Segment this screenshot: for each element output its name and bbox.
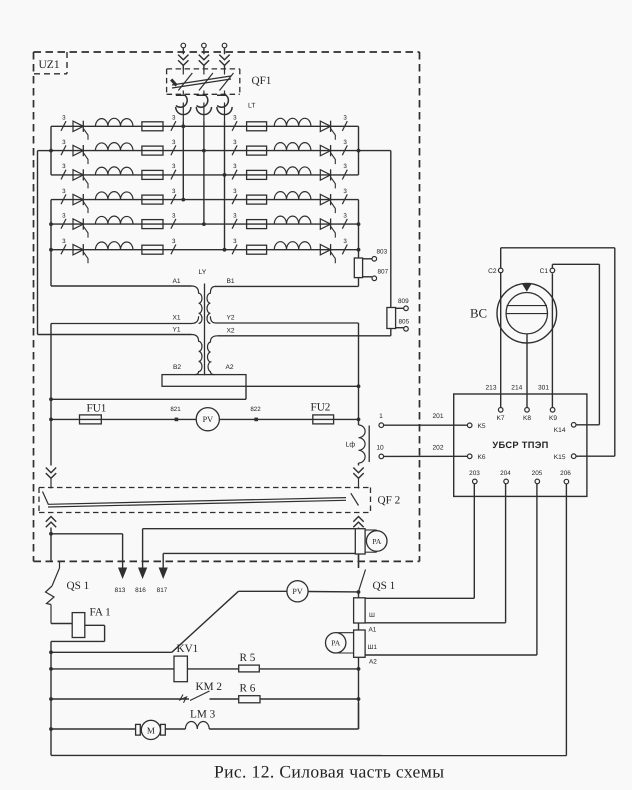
anode choke row6 right: [274, 242, 311, 250]
wire right bus Y2 down: [358, 323, 360, 425]
transformer LY core: [204, 284, 206, 376]
svg-text:3: 3: [233, 115, 237, 122]
svg-text:FU1: FU1: [87, 403, 107, 415]
label BC: [470, 307, 487, 321]
svg-text:3: 3: [62, 238, 66, 245]
svg-text:K9: K9: [549, 415, 557, 422]
pin K15: [554, 454, 576, 461]
svg-text:X1: X1: [172, 314, 180, 321]
svg-text:3: 3: [343, 238, 347, 245]
3-wire slash row6 b: [171, 238, 176, 254]
node phase A / row1: [181, 124, 185, 128]
pin label Y2: [226, 314, 234, 321]
thyristor VS row6 left: [73, 244, 88, 263]
filter choke Lf: [359, 425, 370, 463]
3-wire slash row1 b: [171, 115, 176, 131]
svg-text:3: 3: [62, 188, 66, 195]
transformer winding Y1-B2: [192, 335, 203, 375]
wire 816: [138, 529, 355, 579]
wire row4: [51, 199, 359, 201]
tap label Sh: [369, 612, 375, 619]
anode choke row2 right: [274, 143, 311, 151]
terminal 10: [376, 445, 384, 459]
node bar-return left bus: [49, 397, 53, 401]
3-wire slash row3 c: [232, 163, 237, 179]
3-wire slash row2 c: [232, 139, 237, 155]
fuse row1 right: [247, 122, 267, 131]
svg-text:PV: PV: [292, 587, 302, 596]
label QS1 right: [373, 580, 396, 592]
svg-text:3: 3: [172, 188, 176, 195]
resistor R6: [239, 696, 260, 703]
wire phase column A: [182, 122, 184, 200]
3-wire slash row5 a: [61, 212, 66, 228]
wire phase column B: [203, 122, 205, 225]
contact KM2: [180, 691, 210, 703]
node left bus row5: [49, 222, 53, 226]
3-wire slash row3 d: [342, 163, 347, 179]
svg-text:LM 3: LM 3: [190, 709, 216, 721]
label R5: [240, 652, 256, 664]
svg-text:203: 203: [469, 470, 480, 477]
fuse row4 right: [247, 195, 267, 204]
label FU2: [311, 402, 331, 414]
transformer winding X2-A2: [207, 336, 217, 375]
circuit breaker QF1 dashed box: [167, 69, 240, 94]
wire right lower bus: [358, 592, 360, 729]
thyristor VS row5 left: [73, 219, 88, 238]
wire phase column C: [224, 122, 226, 250]
svg-text:206: 206: [560, 470, 571, 477]
incoming line arrow phase A: [178, 55, 188, 70]
svg-text:821: 821: [170, 406, 181, 413]
wire C2 to K15: [501, 248, 615, 456]
wire left bus tee row2: [38, 150, 52, 152]
pin label B1: [226, 278, 234, 285]
node phase C / row3: [223, 173, 227, 177]
label 813: [115, 587, 126, 594]
svg-text:3: 3: [233, 139, 237, 146]
transformer winding B1-Y2: [207, 286, 359, 323]
disconnector QS1 right: [359, 570, 366, 592]
svg-text:3: 3: [343, 188, 347, 195]
fuse row1 left: [142, 122, 163, 131]
anode choke row3 left: [95, 167, 133, 175]
svg-text:3: 3: [62, 212, 66, 219]
anode choke row1 right: [274, 118, 311, 126]
label QS1 left: [67, 580, 90, 592]
transformer winding A1-X1: [51, 286, 202, 324]
3-wire slash row2 d: [342, 139, 347, 155]
svg-text:3: 3: [343, 212, 347, 219]
fuse FU2: [313, 415, 334, 424]
anode choke row5 right: [274, 216, 311, 224]
label LT: [248, 103, 255, 110]
wire R803 bottom to B1: [215, 278, 359, 287]
svg-text:205: 205: [532, 470, 543, 477]
thyristor VS row3 right: [320, 169, 335, 188]
node rowC right: [357, 697, 361, 701]
wire choke to QF2: [358, 463, 360, 466]
svg-text:202: 202: [432, 445, 443, 452]
pin K7: [496, 408, 504, 423]
fuse FA1: [72, 613, 85, 638]
fuse row2 left: [142, 146, 163, 155]
wire C1 to K14: [552, 264, 599, 425]
wire right bus through shunt: [358, 529, 360, 568]
wire left lower bus: [50, 652, 52, 755]
svg-text:PA: PA: [331, 639, 341, 648]
svg-text:3: 3: [343, 163, 347, 170]
phase input terminal C: [222, 43, 227, 54]
current transformers LT: [176, 95, 232, 121]
label KM2: [196, 681, 222, 693]
wire 213: [500, 273, 502, 408]
3-wire slash row5 d: [342, 212, 347, 228]
wire rowD left: [51, 728, 136, 730]
caption: [214, 762, 444, 782]
wire left bus rows4-6 down to A1: [51, 200, 192, 286]
svg-text:K15: K15: [554, 454, 566, 461]
pin 204: [500, 470, 511, 484]
resistor R803-807: [354, 257, 376, 281]
3-wire slash row5 b: [171, 212, 176, 228]
svg-text:213: 213: [485, 384, 496, 391]
fuse row4 left: [142, 195, 163, 204]
wire 214: [526, 334, 528, 407]
svg-text:PA: PA: [372, 537, 382, 546]
arrow below QF2 left: [46, 517, 56, 534]
node QS1r: [357, 590, 361, 594]
fuse row6 left: [142, 245, 163, 254]
anode choke row1 left: [95, 118, 133, 126]
svg-text:QF 2: QF 2: [378, 495, 401, 507]
3-wire slash row2 b: [171, 139, 176, 155]
svg-text:1: 1: [379, 413, 383, 420]
arrow left bus to QF2: [46, 468, 56, 479]
terminal label 807: [378, 269, 389, 276]
shunt RS2 lower: [354, 630, 366, 657]
wire outer left bus down to Y1: [38, 151, 192, 335]
svg-text:QS 1: QS 1: [67, 580, 90, 592]
wire 203: [365, 484, 474, 598]
voltmeter PV: [196, 408, 219, 431]
svg-text:3: 3: [62, 163, 66, 170]
smoothing choke LM3: [165, 722, 209, 729]
node left bus FU1 row: [49, 418, 53, 422]
label 202: [432, 445, 443, 452]
QF2 left pole: [43, 479, 52, 505]
label FU1: [87, 403, 107, 415]
svg-text:Y1: Y1: [172, 327, 180, 334]
label QF1: [252, 75, 272, 87]
svg-text:K6: K6: [478, 454, 486, 461]
wire rowD right: [209, 703, 358, 729]
anode choke row3 right: [274, 167, 311, 175]
svg-text:3: 3: [343, 139, 347, 146]
QF1 linkage bar: [171, 76, 231, 88]
svg-text:KV1: KV1: [177, 643, 199, 655]
wire FU1 row: [51, 418, 359, 420]
anode choke row4 right: [274, 192, 311, 200]
wire FA1 return: [51, 625, 105, 652]
svg-text:K5: K5: [478, 423, 486, 430]
relay coil KV1: [174, 656, 187, 682]
node right bus row2: [357, 149, 361, 153]
node rowD: [49, 727, 53, 731]
svg-text:822: 822: [250, 406, 261, 413]
svg-text:K7: K7: [496, 415, 504, 422]
svg-text:KM 2: KM 2: [196, 681, 222, 693]
wire 204: [365, 484, 506, 623]
pin 206: [560, 470, 571, 484]
svg-text:C2: C2: [488, 268, 497, 275]
3-wire slash row4 a: [61, 188, 66, 204]
svg-text:FU2: FU2: [311, 402, 331, 414]
pin K9: [549, 408, 557, 423]
svg-text:R 6: R 6: [240, 683, 256, 695]
wire row6: [51, 249, 359, 251]
QF1 pole contacts: [178, 69, 233, 94]
svg-text:R 5: R 5: [240, 652, 256, 664]
label KV1: [177, 643, 199, 655]
svg-text:807: 807: [378, 269, 389, 276]
thyristor VS row3 left: [73, 169, 88, 188]
node left bus row6: [49, 248, 53, 252]
label 301: [538, 384, 549, 391]
wire 301: [551, 274, 553, 408]
thyristor VS row5 right: [320, 219, 335, 238]
wire right bus rows1-3: [358, 126, 360, 175]
pin label X2: [226, 328, 234, 335]
disconnector QS1 left: [46, 562, 60, 624]
3-wire slash row2 a: [61, 139, 66, 155]
label QF2: [378, 495, 401, 507]
pin label Y1: [172, 327, 180, 334]
wire left bus rows1-3: [50, 126, 52, 175]
QF2 linkage bar: [48, 498, 346, 507]
wire rowC left: [51, 698, 189, 700]
svg-text:X2: X2: [226, 328, 234, 335]
wire 817: [159, 553, 356, 579]
svg-text:816: 816: [135, 587, 146, 594]
svg-text:3: 3: [62, 115, 66, 122]
3-wire slash row6 a: [61, 238, 66, 254]
label UZ1 with dashed frame: [34, 52, 67, 74]
svg-text:K8: K8: [523, 415, 531, 422]
label 816: [135, 587, 146, 594]
node left bus row2: [49, 149, 53, 153]
resistor R809-805: [387, 306, 408, 331]
breaker QF2 dashed box: [39, 488, 371, 513]
node rowA: [49, 650, 53, 654]
pin K8: [523, 408, 531, 423]
3-wire slash row1 d: [342, 115, 347, 131]
terminal 822: [250, 406, 261, 421]
label LM3: [190, 709, 216, 721]
wire 813: [51, 534, 127, 579]
terminal label 805: [399, 319, 410, 326]
wire R805 bottom to X2: [218, 329, 391, 336]
svg-text:3: 3: [172, 163, 176, 170]
pin label A2: [225, 364, 233, 371]
pin 203: [469, 470, 480, 484]
wire rowB: [51, 668, 359, 670]
arrow right bus to QF2: [353, 468, 363, 479]
wire row1: [51, 125, 359, 127]
svg-text:B2: B2: [173, 364, 181, 371]
control unit UBSR TPEP box: [454, 394, 587, 496]
svg-text:QS 1: QS 1: [373, 580, 396, 592]
svg-text:B1: B1: [226, 278, 234, 285]
tap label A1: [369, 627, 377, 634]
ammeter PA1: [365, 530, 387, 552]
svg-text:LT: LT: [248, 103, 255, 110]
svg-text:805: 805: [399, 319, 410, 326]
wire bottom return: [51, 484, 566, 756]
phase input terminal B: [202, 43, 207, 54]
pin label B2: [173, 364, 181, 371]
svg-text:809: 809: [398, 298, 409, 305]
label R6: [240, 683, 256, 695]
3-wire slash row4 c: [232, 188, 237, 204]
pin K6: [467, 454, 485, 461]
wire row3: [51, 174, 359, 176]
resistor R5: [239, 665, 260, 672]
svg-text:Lф: Lф: [346, 441, 356, 449]
node phase C / row6: [223, 248, 227, 252]
wire PV2 to QS1 right: [308, 591, 358, 593]
svg-text:3: 3: [172, 238, 176, 245]
svg-text:А1: А1: [369, 627, 377, 634]
motor M: [136, 720, 166, 739]
label 214: [511, 384, 522, 391]
node right bus FU2 row: [357, 418, 361, 422]
svg-text:3: 3: [233, 163, 237, 170]
3-wire slash row5 c: [232, 212, 237, 228]
wire row2: [51, 150, 359, 152]
fuse row6 right: [247, 245, 267, 254]
ammeter PA2: [326, 633, 354, 653]
wire QS1 to FA1: [51, 623, 72, 625]
QF2 right pole: [351, 479, 359, 506]
svg-text:QF1: QF1: [252, 75, 272, 87]
voltmeter PV2: [287, 581, 308, 602]
3-wire slash row1 c: [232, 115, 237, 131]
node bar-right bus: [357, 384, 361, 388]
incoming line arrow phase C: [219, 55, 229, 70]
svg-text:3: 3: [62, 139, 66, 146]
svg-text:3: 3: [343, 115, 347, 122]
wire to voltmeter PV2: [51, 591, 287, 652]
wire left DC bus: [50, 324, 52, 466]
node phase B / row2: [202, 149, 206, 153]
svg-text:УБСР ТПЭП: УБСР ТПЭП: [492, 440, 548, 450]
svg-text:10: 10: [376, 445, 384, 452]
wire outer right vertical to R809: [390, 151, 392, 308]
wire shunt1 to QS1 right: [358, 554, 360, 568]
svg-text:PV: PV: [203, 415, 214, 424]
3-wire slash row3 b: [171, 163, 176, 179]
pin label A1: [172, 278, 180, 285]
svg-text:Рис. 12. Силовая часть схемы: Рис. 12. Силовая часть схемы: [214, 762, 444, 782]
svg-text:А2: А2: [369, 659, 377, 666]
3-wire slash row6 d: [342, 238, 347, 254]
svg-text:803: 803: [377, 249, 388, 256]
svg-text:ВС: ВС: [470, 307, 487, 321]
3-wire slash row4 b: [171, 188, 176, 204]
label UBSR TPEP: [492, 440, 548, 450]
fuse row2 right: [247, 146, 267, 155]
tap label A2: [369, 659, 377, 666]
svg-text:3: 3: [233, 212, 237, 219]
thyristor VS row1 right: [320, 121, 335, 140]
tachogenerator BC: [497, 283, 557, 343]
fuse row3 left: [142, 170, 163, 179]
fuse row3 right: [247, 170, 267, 179]
svg-text:UZ1: UZ1: [39, 59, 60, 71]
terminal C2: [488, 268, 503, 275]
label 213: [485, 384, 496, 391]
svg-text:FA 1: FA 1: [90, 607, 111, 619]
thyristor VS row2 right: [320, 145, 335, 164]
wire row5: [51, 223, 359, 225]
wire left bus to QS1: [50, 534, 52, 562]
node rowC: [49, 697, 53, 701]
anode choke row2 left: [95, 143, 133, 151]
anode choke row5 left: [95, 216, 133, 224]
thyristor VS row4 right: [320, 194, 335, 213]
svg-text:817: 817: [157, 587, 168, 594]
terminal 821: [170, 406, 181, 421]
label FA1: [90, 607, 111, 619]
svg-text:3: 3: [233, 188, 237, 195]
fuse row5 left: [142, 220, 163, 229]
phase input terminal A: [181, 43, 186, 54]
svg-text:3: 3: [172, 212, 176, 219]
svg-text:204: 204: [500, 470, 511, 477]
pin 205: [532, 470, 543, 484]
label 201: [432, 413, 443, 420]
node right bus row6: [357, 248, 361, 252]
tap label Sh1: [368, 644, 378, 651]
thyristor VS row6 right: [320, 244, 335, 263]
svg-text:3: 3: [233, 238, 237, 245]
svg-text:3: 3: [172, 115, 176, 122]
3-wire slash row1 a: [61, 115, 66, 131]
svg-text:214: 214: [511, 384, 522, 391]
fuse FU1: [80, 415, 102, 424]
node rowB right: [357, 667, 361, 671]
3-wire slash row4 d: [342, 188, 347, 204]
shunt RS1: [355, 529, 365, 554]
node rowB: [49, 667, 53, 671]
node phase A / row4: [181, 198, 185, 202]
converter cabinet UZ1 dashed border: [34, 52, 420, 561]
anode choke row6 left: [95, 242, 133, 250]
svg-text:201: 201: [432, 413, 443, 420]
3-wire slash row3 a: [61, 163, 66, 179]
node phase B / row5: [202, 222, 206, 226]
wire right bus rows4-6 to R803: [358, 200, 360, 258]
wire rowC right: [210, 698, 359, 700]
pin label X1: [172, 314, 180, 321]
svg-text:K14: K14: [554, 427, 566, 434]
node right bus row5: [357, 222, 361, 226]
wire 201: [384, 424, 468, 426]
svg-text:813: 813: [115, 587, 126, 594]
svg-text:Ш1: Ш1: [368, 644, 378, 651]
